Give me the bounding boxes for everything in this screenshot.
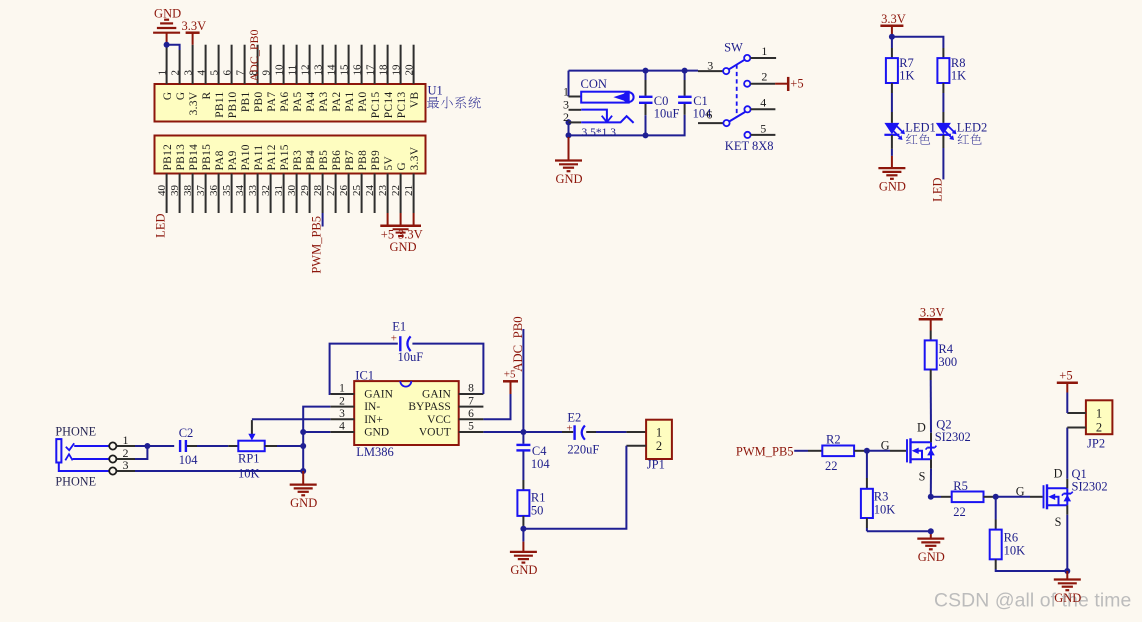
svg-text:PA9: PA9	[227, 150, 239, 170]
wire Q1 gnd stem	[1066, 571, 1068, 580]
svg-text:IN+: IN+	[364, 414, 383, 426]
svg-text:PB14: PB14	[188, 144, 200, 171]
svg-text:PA12: PA12	[266, 144, 278, 170]
U1 pin 12 line	[309, 45, 311, 84]
connector CON pin1 line	[569, 96, 582, 98]
svg-text:GND: GND	[389, 240, 416, 254]
U1 pin 22 line	[400, 174, 402, 214]
U1 pin 19 line	[400, 45, 402, 84]
ground GND stem below R1	[522, 542, 524, 552]
resistor R8	[937, 58, 949, 83]
wire LED2 down	[942, 135, 944, 148]
resistor R5	[952, 492, 984, 503]
switch SW lever top	[729, 60, 745, 69]
svg-text:PA6: PA6	[279, 92, 291, 112]
svg-text:PB10: PB10	[227, 92, 239, 119]
U1 pin 11 line	[296, 45, 298, 84]
PHONE terminal 3 circle	[109, 467, 116, 474]
IC1 pin 1 line	[330, 393, 354, 395]
svg-text:3: 3	[563, 97, 569, 111]
svg-text:20: 20	[403, 64, 415, 76]
capacitor C1 plates	[678, 96, 692, 98]
svg-text:SI2302: SI2302	[1072, 480, 1108, 494]
connector CON pin2 blue line	[581, 121, 620, 123]
svg-text:BYPASS: BYPASS	[408, 401, 450, 413]
switch SW throw5 line	[751, 134, 776, 136]
svg-text:VCC: VCC	[427, 414, 451, 426]
svg-text:LED: LED	[153, 214, 167, 238]
potentiometer RP1 body	[238, 441, 264, 452]
U1 pin 16 line	[361, 45, 363, 84]
U1 pin 34 line	[244, 174, 246, 214]
svg-text:R1: R1	[531, 490, 546, 504]
connector CON contact chevron	[620, 116, 634, 123]
svg-text:R: R	[201, 91, 213, 99]
svg-text:1: 1	[761, 44, 767, 58]
junction dot GND node pin4	[300, 429, 306, 435]
switch SW throw5 circle	[744, 132, 750, 138]
switch SW throw2 line	[750, 83, 775, 85]
PHONE terminal 1 line	[117, 445, 135, 447]
svg-text:PWM_PB5: PWM_PB5	[309, 216, 323, 274]
ground GND above U1 pin1	[164, 19, 169, 21]
switch SW throw4 circle	[744, 106, 750, 112]
op-amp IC1 body	[354, 381, 459, 445]
wire 3.3V rail to R8	[892, 37, 944, 48]
U1 pin 1 line	[166, 45, 168, 84]
svg-text:PA11: PA11	[253, 145, 265, 171]
wire E1 loop left	[330, 344, 398, 394]
svg-text:104: 104	[531, 457, 551, 471]
svg-text:S: S	[1055, 515, 1062, 529]
diode LED1 value 红色	[906, 134, 917, 144]
svg-text:1: 1	[123, 433, 129, 447]
svg-text:2: 2	[656, 439, 662, 453]
wire left vertical CON top	[568, 71, 570, 97]
svg-text:PB8: PB8	[357, 150, 369, 171]
wire R1 to GND node	[522, 516, 524, 526]
svg-text:6: 6	[468, 408, 474, 420]
svg-text:14: 14	[325, 64, 337, 76]
wire Q2 gnd	[930, 531, 932, 538]
svg-text:PA8: PA8	[214, 150, 226, 170]
power 3.3V at R4	[919, 318, 943, 321]
svg-text:1K: 1K	[899, 69, 914, 83]
svg-text:PB5: PB5	[318, 150, 330, 171]
wire Q2 source down	[930, 459, 932, 469]
svg-text:G: G	[175, 92, 187, 101]
svg-text:31: 31	[273, 185, 285, 196]
wire C4 to R1	[522, 452, 524, 481]
resistor R3	[861, 489, 873, 518]
svg-text:PA3: PA3	[318, 92, 330, 112]
svg-text:PB12: PB12	[162, 144, 174, 171]
switch SW pole6 circle	[723, 120, 729, 126]
svg-text:29: 29	[299, 185, 311, 197]
svg-text:VB: VB	[409, 92, 421, 109]
connector PHONE jack symbol	[56, 439, 61, 462]
svg-text:+: +	[566, 422, 572, 434]
svg-text:25: 25	[351, 185, 363, 197]
U1 pin 27 line	[335, 174, 337, 214]
svg-text:CON: CON	[581, 77, 607, 91]
U1 pin 21 line	[413, 174, 415, 214]
switch SW throw1 circle	[744, 55, 750, 61]
junction dot C0 top	[643, 68, 649, 74]
wire +5 to JP2 pin1	[1066, 393, 1068, 414]
svg-text:PB13: PB13	[175, 144, 187, 171]
svg-text:13: 13	[312, 64, 324, 76]
U1 pin 15 line	[348, 45, 350, 84]
svg-text:10uF: 10uF	[654, 107, 680, 121]
svg-text:C2: C2	[179, 426, 194, 440]
switch SW pole6 line	[698, 122, 723, 124]
power +5 at SW throw2	[775, 83, 787, 85]
wire IN- branch	[303, 407, 330, 471]
U1 pin 9 line	[270, 45, 272, 84]
switch SW pole3 line	[698, 70, 723, 72]
switch SW throw4 line	[751, 108, 776, 110]
wire GND pin4 branch	[303, 431, 330, 433]
U1 pin 38 line	[192, 174, 194, 214]
svg-text:23: 23	[377, 185, 389, 197]
svg-text:S: S	[919, 469, 926, 483]
junction dot GND node phone3	[300, 468, 306, 474]
wire R6 bottom	[995, 559, 997, 569]
svg-text:IC1: IC1	[355, 369, 374, 383]
U1 comment 最小系统	[427, 97, 439, 109]
svg-text:21: 21	[403, 185, 415, 196]
svg-text:SW: SW	[724, 41, 743, 55]
svg-text:3: 3	[123, 458, 129, 472]
junction dot PHONE node	[144, 443, 150, 449]
svg-text:GND: GND	[918, 550, 945, 564]
wire R4 to Q2 drain	[930, 370, 932, 381]
U1 pin 6 line	[231, 45, 233, 84]
IC1 pin 5 line	[459, 431, 484, 433]
U1 pin 10 line	[283, 45, 285, 84]
svg-text:E1: E1	[392, 319, 406, 333]
svg-text:G: G	[1016, 484, 1025, 498]
svg-text:VOUT: VOUT	[419, 427, 451, 439]
svg-text:4: 4	[195, 70, 207, 76]
U1 pin 3 line	[192, 45, 194, 84]
svg-text:PB11: PB11	[214, 92, 226, 118]
wire C0 top	[645, 71, 647, 80]
wire top rail CON to SW	[569, 70, 699, 72]
ground GND below R1	[510, 551, 537, 553]
svg-text:LED: LED	[931, 178, 945, 202]
wire R8 top	[942, 48, 944, 58]
wire VOUT to E2	[483, 431, 562, 433]
svg-text:27: 27	[325, 185, 337, 197]
junction dot C1 top	[682, 68, 688, 74]
junction dot GND node RP1	[300, 443, 306, 449]
junction dot R5 R6 node	[993, 494, 999, 500]
junction dot CON pin2	[566, 119, 572, 125]
svg-text:PA15: PA15	[279, 144, 291, 170]
U1 pin 14 line	[335, 45, 337, 84]
U1 pin 36 line	[218, 174, 220, 214]
power stems U1 pins 23/22/21	[387, 213, 389, 226]
svg-text:50: 50	[531, 503, 544, 517]
svg-text:3.3V: 3.3V	[409, 146, 421, 170]
resistor R7	[886, 58, 898, 83]
svg-text:+5: +5	[1059, 369, 1072, 383]
ground GND stem below CON	[568, 137, 570, 161]
switch SW lever bottom	[729, 112, 745, 121]
U1 pin 25 line	[361, 174, 363, 214]
wire Q1 source down	[1066, 505, 1068, 515]
svg-text:JP1: JP1	[647, 458, 665, 472]
U1 pin 17 line	[374, 45, 376, 84]
svg-text:19: 19	[390, 64, 402, 76]
connector JP2 body	[1086, 400, 1113, 434]
U1 pin 20 line	[413, 45, 415, 84]
svg-text:2: 2	[169, 70, 181, 76]
ground GND below CON	[555, 159, 582, 161]
svg-text:G: G	[396, 162, 408, 171]
IC1 pin 2 line	[330, 406, 354, 408]
svg-text:1: 1	[656, 425, 662, 439]
wire left vertical CON bottom	[568, 119, 570, 137]
svg-text:10uF: 10uF	[398, 350, 424, 364]
U1 pin 39 line	[179, 174, 181, 214]
junction dot Q2 source R5	[928, 494, 934, 500]
wire U1 pin1 to pin2	[167, 45, 180, 50]
svg-text:2: 2	[563, 110, 569, 124]
connector CON switch-pin arrow	[581, 110, 607, 122]
svg-text:10K: 10K	[874, 503, 896, 517]
svg-text:G: G	[162, 92, 174, 101]
svg-text:8: 8	[468, 383, 474, 395]
svg-text:PA0: PA0	[357, 92, 369, 112]
wire R3 top	[866, 451, 868, 478]
U1 pin 35 line	[231, 174, 233, 214]
svg-text:4: 4	[760, 96, 766, 110]
svg-text:10: 10	[273, 64, 285, 76]
svg-text:SI2302: SI2302	[935, 430, 971, 444]
svg-text:2: 2	[1096, 420, 1102, 434]
svg-text:GND: GND	[555, 172, 582, 186]
IC1 pin 3 line	[330, 418, 354, 420]
svg-text:GND: GND	[879, 179, 906, 193]
wire +5 to VCC pin6	[483, 394, 510, 419]
svg-text:16: 16	[351, 64, 363, 76]
svg-text:KET 8X8: KET 8X8	[725, 139, 774, 153]
svg-text:LED1: LED1	[905, 121, 936, 135]
U1 pin 31 line	[283, 174, 285, 214]
svg-text:4: 4	[339, 421, 345, 433]
resistor R1	[517, 490, 529, 516]
power 3.3V at U1 pin3	[186, 31, 200, 34]
junction dot Q2 source gnd	[928, 528, 934, 534]
IC1 pin 8 line	[459, 393, 484, 395]
wire R8 to LED2	[942, 83, 944, 93]
svg-text:GND: GND	[290, 496, 317, 510]
svg-text:LED2: LED2	[957, 121, 988, 135]
wire source to R5	[931, 496, 941, 498]
svg-text:GND: GND	[510, 563, 537, 577]
svg-text:3.3V: 3.3V	[181, 19, 206, 33]
svg-text:1: 1	[1096, 407, 1102, 421]
connector JP2 pin1 line	[1067, 412, 1086, 414]
svg-text:PA5: PA5	[292, 92, 304, 112]
svg-text:26: 26	[338, 185, 350, 197]
svg-text:ADC_PB0: ADC_PB0	[247, 29, 261, 81]
svg-text:6: 6	[221, 70, 233, 76]
svg-text:1: 1	[563, 84, 569, 98]
svg-text:40: 40	[156, 185, 168, 197]
U1 pin 7 line	[244, 45, 246, 84]
svg-text:17: 17	[364, 64, 376, 76]
svg-text:R6: R6	[1004, 531, 1019, 545]
wire PHONE3 to GND node	[135, 470, 303, 472]
svg-text:PB9: PB9	[370, 150, 382, 171]
capacitor C4 plates	[516, 444, 530, 446]
svg-text:PHONE: PHONE	[55, 425, 96, 439]
svg-text:11: 11	[286, 65, 298, 76]
transistor Q2 symbol	[906, 439, 908, 462]
svg-text:3.5*1.3: 3.5*1.3	[582, 127, 617, 139]
svg-text:15: 15	[338, 64, 350, 76]
svg-text:PA1: PA1	[344, 92, 356, 112]
ground GND stem centre	[302, 471, 304, 485]
U1 pin 2 line	[179, 50, 181, 84]
svg-text:PA10: PA10	[240, 144, 252, 170]
svg-text:PB4: PB4	[305, 150, 317, 171]
svg-text:GAIN: GAIN	[364, 389, 393, 401]
svg-text:24: 24	[364, 185, 376, 197]
U1 pin 18 line	[387, 45, 389, 84]
diode LED2 value 红色	[958, 134, 969, 144]
IC1 pin 7 line	[459, 406, 484, 408]
wire VOUT to C4	[522, 432, 524, 444]
wire R5 to Q1 gate	[984, 496, 996, 498]
svg-text:28: 28	[312, 185, 324, 197]
svg-text:1K: 1K	[951, 69, 966, 83]
svg-text:39: 39	[169, 185, 181, 197]
svg-text:5: 5	[760, 121, 766, 135]
svg-text:C4: C4	[532, 444, 547, 458]
wire R7 top	[891, 37, 893, 48]
wire PWM stub at U1 pin28	[322, 213, 324, 227]
svg-text:34: 34	[234, 185, 246, 197]
U1 pin 24 line	[374, 174, 376, 214]
wire PWM_PB5 to R2	[794, 450, 808, 452]
svg-text:IN-: IN-	[364, 401, 380, 413]
capacitor C0 plates	[639, 96, 653, 98]
U1 pin 29 line	[309, 174, 311, 214]
svg-text:36: 36	[208, 185, 220, 197]
svg-text:G: G	[881, 438, 890, 452]
wire C1 bottom	[684, 104, 686, 115]
svg-text:300: 300	[938, 355, 957, 369]
svg-text:35: 35	[221, 185, 233, 197]
connector CON barrel symbol	[581, 92, 629, 103]
svg-text:3: 3	[707, 59, 713, 73]
switch SW throw1 line	[750, 57, 776, 59]
svg-text:U1: U1	[428, 84, 443, 98]
switch SW pole3 circle	[723, 68, 729, 74]
diode LED2	[936, 123, 951, 134]
U1 pin 40 line	[166, 174, 168, 214]
U1 pin 37 line	[205, 174, 207, 214]
wire C1 top	[684, 71, 686, 80]
junction dot Q1 source gnd	[1064, 568, 1070, 574]
op-amp IC1 notch	[400, 381, 411, 387]
junction dot R1 bottom	[520, 526, 526, 532]
IC1 pin 4 line	[330, 431, 354, 433]
svg-text:33: 33	[247, 185, 259, 197]
wire R2 to Q2 gate	[854, 450, 867, 452]
svg-text:22: 22	[390, 185, 402, 196]
wire JP1 pin2 to R1 bottom	[626, 445, 646, 447]
svg-text:PC14: PC14	[383, 92, 395, 119]
junction dot C0 bottom	[643, 132, 649, 138]
svg-text:9: 9	[260, 70, 272, 76]
connector CON pin2 line	[569, 121, 582, 123]
wire E2 to JP1	[586, 431, 596, 433]
svg-text:1: 1	[339, 383, 345, 395]
power 3.3V top right	[880, 25, 903, 28]
svg-text:R3: R3	[874, 490, 889, 504]
svg-text:5: 5	[208, 70, 220, 76]
svg-text:RP1: RP1	[238, 451, 260, 465]
svg-text:220uF: 220uF	[567, 443, 599, 457]
svg-text:PB0: PB0	[253, 92, 265, 113]
U1 MCU header bottom box	[155, 136, 426, 174]
resistor R6	[990, 530, 1002, 560]
svg-text:D: D	[917, 421, 926, 435]
diode LED1	[884, 123, 899, 134]
wire E1 loop right	[412, 344, 483, 394]
wire 3.3V to R4	[930, 331, 932, 341]
U1 MCU header top box	[155, 84, 426, 122]
svg-text:PA2: PA2	[331, 92, 343, 112]
svg-text:7: 7	[234, 70, 246, 76]
capacitor C2 plates	[179, 440, 181, 452]
svg-text:3: 3	[182, 70, 194, 76]
svg-text:3: 3	[339, 408, 345, 420]
connector JP1 body	[646, 420, 672, 459]
switch SW link dashed line	[736, 65, 738, 118]
svg-text:GND: GND	[154, 6, 181, 20]
svg-text:PC13: PC13	[396, 92, 408, 119]
svg-text:5V: 5V	[383, 155, 395, 170]
wire R6 top	[995, 497, 997, 520]
svg-text:PB7: PB7	[344, 150, 356, 171]
svg-text:GND: GND	[364, 427, 389, 439]
svg-text:GND: GND	[1054, 591, 1081, 605]
U1 pin 13 line	[322, 45, 324, 84]
svg-text:5: 5	[468, 421, 474, 433]
PHONE terminal 2 circle	[109, 455, 116, 462]
wire LED1 to GND	[891, 135, 893, 149]
U1 pin 30 line	[296, 174, 298, 214]
wire ADC_PB0 vertical	[522, 329, 524, 432]
svg-text:JP2: JP2	[1087, 437, 1105, 451]
svg-text:3.3V: 3.3V	[920, 305, 945, 319]
svg-text:22: 22	[825, 459, 838, 473]
svg-text:6: 6	[706, 108, 712, 122]
svg-text:+5: +5	[790, 77, 803, 91]
U1 pin 5 line	[218, 45, 220, 84]
svg-text:10K: 10K	[1004, 544, 1026, 558]
svg-text:PWM_PB5: PWM_PB5	[736, 444, 794, 458]
svg-text:R5: R5	[953, 479, 968, 493]
svg-text:PA4: PA4	[305, 92, 317, 112]
